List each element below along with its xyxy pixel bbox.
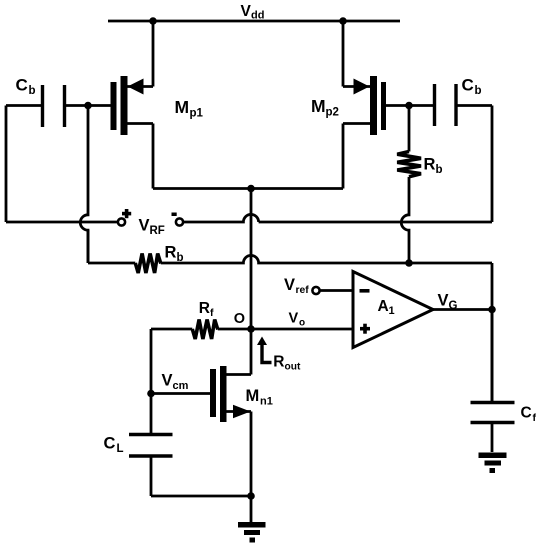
svg-text:dd: dd [251, 10, 264, 22]
svg-text:RF: RF [150, 225, 165, 237]
svg-text:n1: n1 [260, 396, 273, 408]
svg-text:M: M [246, 387, 260, 405]
svg-text:O: O [234, 311, 245, 327]
svg-text:C: C [16, 76, 28, 95]
svg-text:R: R [273, 353, 284, 370]
svg-text:R: R [199, 300, 210, 317]
svg-text:b: b [475, 85, 482, 97]
svg-text:M: M [311, 96, 326, 116]
svg-text:f: f [210, 307, 214, 319]
svg-text:V: V [438, 292, 449, 310]
svg-text:V: V [162, 372, 173, 390]
svg-text:b: b [177, 252, 184, 264]
svg-text:V: V [289, 311, 299, 327]
svg-text:V: V [284, 276, 295, 294]
svg-text:C: C [462, 76, 474, 95]
svg-text:C: C [521, 405, 532, 422]
svg-text:R: R [165, 244, 177, 262]
svg-text:o: o [299, 318, 305, 329]
svg-text:b: b [436, 164, 443, 176]
svg-text:f: f [533, 412, 537, 424]
svg-text:L: L [117, 443, 124, 455]
svg-text:R: R [424, 156, 436, 174]
svg-text:M: M [175, 97, 190, 117]
svg-text:1: 1 [389, 305, 395, 317]
svg-text:out: out [285, 361, 301, 372]
svg-text:A: A [378, 298, 389, 315]
svg-text:b: b [29, 85, 36, 97]
svg-text:C: C [104, 435, 116, 453]
svg-text:V: V [139, 217, 150, 235]
svg-text:V: V [241, 3, 252, 20]
svg-text:ref: ref [296, 285, 310, 296]
svg-text:cm: cm [173, 380, 189, 392]
svg-text:p2: p2 [326, 107, 339, 119]
svg-text:p1: p1 [190, 108, 204, 120]
svg-text:G: G [449, 300, 458, 312]
